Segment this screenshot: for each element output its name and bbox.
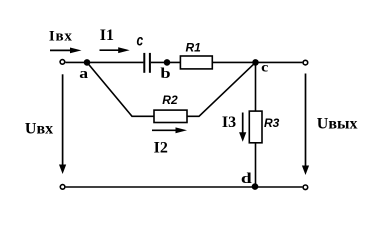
svg-text:R1: R1 [186,40,202,54]
svg-text:Uвых: Uвых [317,115,358,132]
svg-text:I1: I1 [100,27,114,44]
svg-text:a: a [79,64,88,81]
svg-text:R2: R2 [162,93,178,107]
svg-text:I2: I2 [154,139,168,156]
svg-text:Iвх: Iвх [49,29,73,45]
svg-text:b: b [160,64,170,81]
svg-text:d: d [241,170,252,186]
svg-text:Uвх: Uвх [25,121,53,138]
svg-text:R3: R3 [264,116,280,130]
svg-text:c: c [261,61,268,76]
svg-text:c: c [137,31,144,49]
svg-text:I3: I3 [222,114,236,131]
